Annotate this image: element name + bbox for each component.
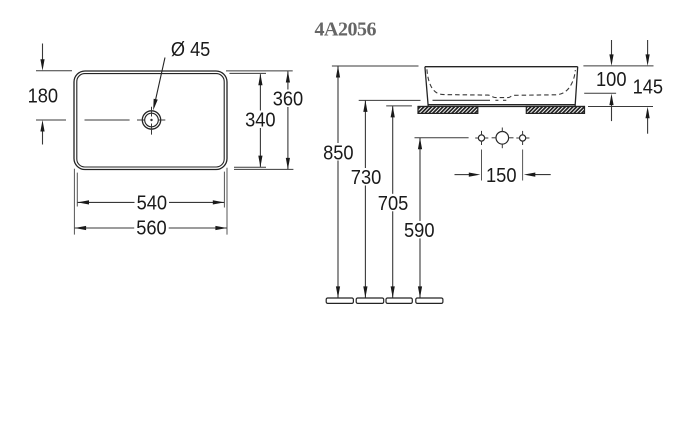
svg-text:150: 150 [486,165,517,187]
dimension 100 [611,40,613,56]
top extension lines of vertical dims [332,65,419,67]
dimension 180 [36,70,72,72]
leader Ø 45 [154,58,165,107]
dimension 360 [226,70,293,72]
basin inner profile (hidden, dashed) [427,69,575,97]
svg-text:705: 705 [378,193,409,215]
countertop hatch right [526,107,584,114]
faucet hole outer circle [142,111,160,129]
dimension 705 [392,106,394,298]
dimension 850 [337,66,339,298]
dimension 145 [647,40,649,56]
svg-text:360: 360 [273,88,304,110]
dimension 340 [229,72,266,74]
floor bars [326,298,443,303]
svg-text:540: 540 [137,193,168,215]
svg-text:145: 145 [633,76,664,98]
faucet hole center mark [137,107,165,135]
faucet hole left small [478,135,484,141]
extension lines for 150 [481,150,483,181]
svg-text:850: 850 [323,142,354,164]
faucet hole right small [520,135,526,141]
countertop line [418,106,585,108]
dimension 150 [455,174,471,176]
basin interior bottom line [433,99,491,101]
dimension 540 [78,201,225,203]
svg-text:4A2056: 4A2056 [315,19,377,41]
dimension 560 [75,227,227,229]
faucet hole inner circle [145,113,159,127]
svg-text:590: 590 [404,220,435,242]
basin outer rim (rounded rect) [74,71,227,170]
basin side profile [425,67,578,107]
svg-text:100: 100 [596,69,627,91]
extension lines below basin [74,168,227,235]
countertop hatch left [418,107,478,114]
right side extension lines [583,65,653,67]
svg-text:560: 560 [136,217,167,239]
dimension 730 [364,101,366,298]
svg-text:340: 340 [245,110,276,132]
svg-text:730: 730 [351,167,382,189]
dimension 590 [419,138,421,298]
faucet hole center big [496,132,509,145]
svg-text:Ø 45: Ø 45 [171,39,210,61]
horizontal center line of hole [36,119,130,121]
basin inner rim (rounded rect) [77,74,224,167]
svg-text:180: 180 [28,86,58,108]
